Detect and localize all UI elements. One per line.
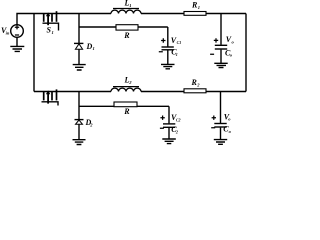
svg-text:1: 1 bbox=[176, 52, 178, 57]
svg-text:o: o bbox=[230, 53, 233, 58]
svg-text:2: 2 bbox=[89, 122, 93, 127]
svg-text:2: 2 bbox=[196, 83, 200, 88]
svg-text:R: R bbox=[123, 31, 130, 40]
svg-text:1: 1 bbox=[93, 46, 95, 51]
svg-text:o: o bbox=[228, 117, 231, 122]
svg-text:o: o bbox=[232, 39, 235, 44]
svg-text:D: D bbox=[86, 42, 93, 51]
svg-text:C1: C1 bbox=[177, 40, 182, 45]
svg-text:2: 2 bbox=[128, 80, 132, 85]
svg-text:2: 2 bbox=[175, 129, 178, 134]
svg-text:1: 1 bbox=[198, 5, 200, 10]
svg-text:R: R bbox=[123, 107, 130, 116]
svg-text:in: in bbox=[6, 30, 10, 35]
svg-text:o: o bbox=[229, 129, 232, 134]
svg-text:1: 1 bbox=[129, 3, 131, 8]
svg-text:C2: C2 bbox=[176, 118, 181, 123]
svg-text:1: 1 bbox=[52, 30, 54, 35]
